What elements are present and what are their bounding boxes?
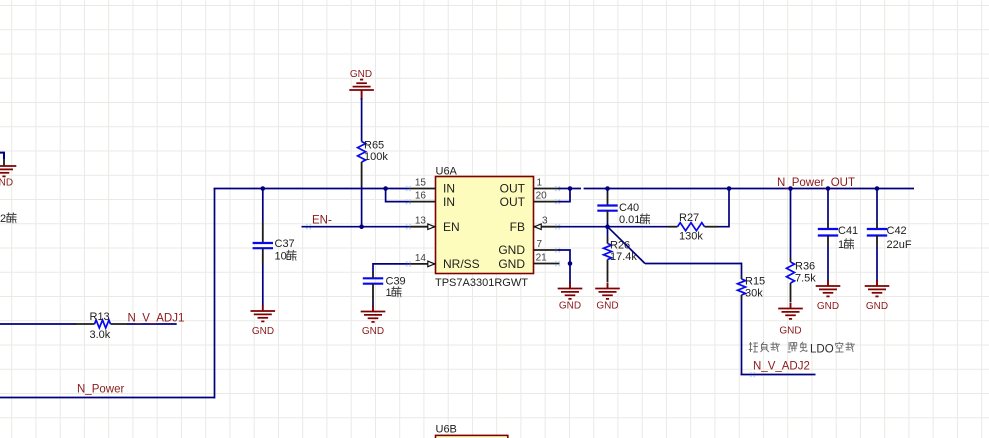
- svg-text:OUT: OUT: [500, 182, 526, 196]
- capacitor C37: [262, 189, 264, 223]
- svg-text:R65: R65: [364, 140, 384, 152]
- pin 21 GND: [534, 263, 560, 265]
- svg-text:C41: C41: [838, 225, 858, 237]
- capacitor C39: [372, 272, 374, 278]
- svg-text:R13: R13: [90, 311, 110, 323]
- svg-text:13: 13: [415, 216, 427, 227]
- wire adj horizontal: [645, 263, 742, 265]
- svg-text:21: 21: [536, 253, 548, 264]
- wire N_Power horizontal: [0, 397, 215, 399]
- wire N_Power vertical riser: [214, 189, 216, 399]
- svg-text:U6B: U6B: [436, 424, 457, 436]
- wire NR/SS: [373, 264, 410, 272]
- pin 1 OUT: [534, 188, 560, 190]
- junction C41 top: [826, 186, 831, 191]
- ground U6A GND pins: [558, 288, 583, 290]
- op-amp U6B body (partial): [436, 435, 508, 438]
- svg-text:1: 1: [386, 287, 392, 299]
- ground (cut-off, left edge): [0, 165, 16, 167]
- pin 13 EN: [410, 226, 436, 228]
- svg-text:30k: 30k: [745, 288, 763, 300]
- svg-text:GND: GND: [559, 301, 581, 312]
- wire FB: [559, 226, 669, 228]
- svg-text:OUT: OUT: [500, 195, 526, 209]
- svg-text:EN-: EN-: [312, 215, 332, 227]
- svg-text:IN: IN: [443, 195, 455, 209]
- ground R65 top: [349, 89, 374, 91]
- ground C39: [361, 311, 386, 313]
- svg-text:EN: EN: [443, 220, 460, 234]
- svg-text:R27: R27: [679, 212, 699, 224]
- resistor R65: [361, 98, 363, 142]
- resistor R26: [607, 227, 609, 237]
- wire N_V_ADJ1 stub: [128, 323, 177, 325]
- svg-text:GND: GND: [596, 301, 618, 312]
- svg-text:C39: C39: [386, 276, 406, 288]
- svg-text:7.5k: 7.5k: [795, 273, 816, 285]
- capacitor C40: [607, 189, 609, 193]
- wire N_V_ADJ2: [741, 374, 816, 376]
- comment text light-load note: [749, 343, 752, 345]
- svg-text:3: 3: [542, 216, 548, 227]
- pin 15 IN: [410, 188, 436, 190]
- svg-text:3.0k: 3.0k: [90, 329, 111, 341]
- wire GND pins to ground: [559, 250, 571, 264]
- svg-text:IN: IN: [443, 182, 455, 196]
- wire to R13: [0, 323, 76, 325]
- resistor R15: [741, 263, 743, 276]
- svg-text:LDO: LDO: [810, 344, 834, 356]
- pin 16 IN: [410, 201, 436, 203]
- wire OUT rail segment a: [559, 188, 582, 190]
- svg-text:0.01: 0.01: [619, 214, 640, 226]
- svg-text:15: 15: [415, 178, 427, 189]
- svg-text:GND: GND: [350, 69, 372, 80]
- svg-text:N_V_ADJ1: N_V_ADJ1: [128, 313, 185, 325]
- svg-text:GND: GND: [817, 301, 839, 312]
- wire OUT rail segment b: [584, 188, 914, 190]
- junction C37 tap: [261, 186, 266, 191]
- capacitor C41: [827, 189, 829, 223]
- junction C42 top: [875, 186, 880, 191]
- svg-text:R36: R36: [795, 261, 815, 273]
- junction FB node: [605, 224, 610, 229]
- junction pin-20 jog: [568, 186, 573, 191]
- wire diagonal FB to adj: [608, 227, 646, 264]
- svg-text:GND: GND: [866, 301, 888, 312]
- ground R36: [778, 308, 803, 310]
- resistor R36: [790, 189, 792, 259]
- pin 14 NR/SS: [410, 263, 436, 265]
- resistor R13: [75, 323, 95, 325]
- wire IN rail: [214, 188, 410, 190]
- wire pin-20 jog: [559, 189, 571, 202]
- wire fragment top-left: [0, 153, 4, 159]
- wire R27 to OUT rail: [718, 189, 729, 227]
- junction C40 top: [605, 186, 610, 191]
- svg-text:N_V_ADJ2: N_V_ADJ2: [753, 361, 810, 373]
- svg-text:2: 2: [0, 213, 6, 225]
- svg-text:1: 1: [838, 239, 844, 251]
- ground C42: [865, 285, 890, 287]
- svg-text:GND: GND: [252, 326, 274, 337]
- svg-text:100k: 100k: [364, 151, 388, 163]
- svg-text:GND: GND: [779, 326, 801, 337]
- pin 3 FB: [534, 226, 560, 228]
- svg-text:TPS7A3301RGWT: TPS7A3301RGWT: [435, 277, 528, 289]
- pin 7 GND: [534, 249, 560, 251]
- svg-text:C37: C37: [275, 238, 295, 250]
- capacitor C42: [876, 189, 878, 223]
- svg-text:N_Power: N_Power: [77, 384, 124, 396]
- pin 20 OUT: [534, 201, 560, 203]
- junction R27 top: [727, 186, 732, 191]
- svg-text:20: 20: [536, 191, 548, 202]
- svg-text:C40: C40: [619, 202, 639, 214]
- junction pin-16 jog: [383, 186, 388, 191]
- svg-text:1: 1: [537, 178, 543, 189]
- svg-text:GND: GND: [498, 243, 525, 257]
- junction R36 top: [788, 186, 793, 191]
- lead of cut-off capacitor: [3, 159, 5, 166]
- svg-text:GND: GND: [498, 257, 525, 271]
- svg-text:R15: R15: [745, 276, 765, 288]
- wire EN-: [302, 226, 410, 228]
- svg-text:22uF: 22uF: [887, 239, 912, 251]
- junction pin-21: [568, 261, 573, 266]
- svg-text:130k: 130k: [679, 231, 703, 243]
- svg-text:GND: GND: [362, 326, 384, 337]
- resistor R27: [668, 226, 678, 228]
- ground C37: [251, 310, 276, 312]
- endpoint marker N_V_ADJ2: [750, 372, 752, 374]
- op-amp U6A body: [436, 177, 534, 274]
- svg-text:FB: FB: [510, 220, 525, 234]
- wire pin-16 jog: [386, 189, 410, 202]
- svg-text:C42: C42: [887, 225, 907, 237]
- svg-text:14: 14: [415, 253, 427, 264]
- svg-text:10: 10: [275, 251, 287, 263]
- junction R65 on EN-: [359, 224, 364, 229]
- svg-text:GND: GND: [0, 178, 13, 189]
- svg-text:16: 16: [415, 191, 427, 202]
- svg-text:NR/SS: NR/SS: [443, 257, 480, 271]
- svg-text:U6A: U6A: [436, 166, 458, 178]
- ground C41: [816, 285, 841, 287]
- svg-text:7: 7: [537, 239, 543, 250]
- endpoint marker EN- start: [306, 224, 308, 226]
- ground R26: [595, 288, 620, 290]
